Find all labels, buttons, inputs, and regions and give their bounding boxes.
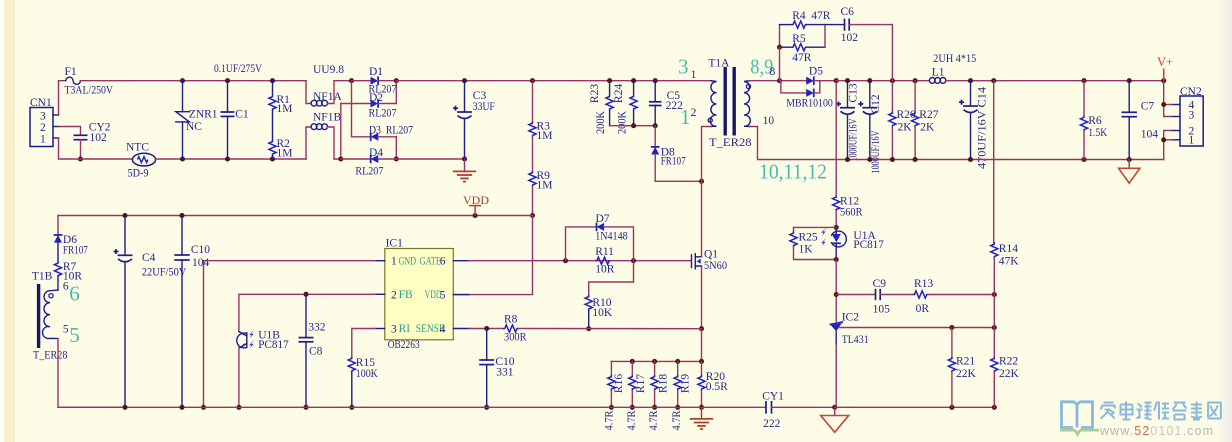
svg-text:R27: R27 <box>919 109 938 121</box>
svg-text:2K: 2K <box>920 122 935 134</box>
svg-text:R4: R4 <box>792 10 806 22</box>
wire IC1 GND to ground column <box>204 261 376 408</box>
resistor R6 <box>1080 81 1107 160</box>
wire Q1 drain <box>701 181 703 256</box>
wire R4R5 column to D5 anode <box>779 47 781 80</box>
svg-text:1: 1 <box>40 134 46 146</box>
svg-text:0.5R: 0.5R <box>706 381 728 393</box>
wire snubber to D8 <box>654 126 656 147</box>
diode D1 <box>352 66 397 96</box>
IC1 pin6 GATE <box>420 255 469 267</box>
wire R3 to R9 <box>532 137 534 171</box>
svg-text:RI: RI <box>399 323 411 335</box>
svg-text:C6: C6 <box>841 6 855 18</box>
wire VDD column to IC pin5 <box>453 216 532 295</box>
svg-text:1M: 1M <box>277 103 293 115</box>
wire TL431 ref line <box>839 327 995 329</box>
resistor R14 <box>991 81 1020 295</box>
wire T1B pin5 to primary ground bus <box>58 339 125 408</box>
svg-text:5: 5 <box>69 323 80 347</box>
optocoupler U1B <box>237 330 289 351</box>
wire T1A pin2 to drain node <box>702 127 712 182</box>
ground triangle under C7 <box>1119 160 1140 184</box>
power port V+ <box>1157 55 1173 81</box>
resistor R21 <box>948 328 976 408</box>
node top rail junctions <box>180 78 185 83</box>
svg-text:22K: 22K <box>956 368 977 380</box>
resistor R18 <box>648 361 669 430</box>
wire SENSE line <box>469 328 503 330</box>
wire IC1 FB line <box>239 294 375 331</box>
resistor R13 <box>913 278 934 315</box>
wire secondary plus rail <box>836 80 929 82</box>
wire R8 to source node <box>519 328 702 330</box>
svg-text:1000UF/16V: 1000UF/16V <box>870 130 882 173</box>
wire C3 to primary ground <box>464 159 466 171</box>
wire VDD bus <box>58 215 533 217</box>
resistor R24 <box>613 81 637 134</box>
svg-text:C13: C13 <box>848 83 860 102</box>
svg-text:470UF/16V C14: 470UF/16V C14 <box>977 87 989 169</box>
svg-text:5N60: 5N60 <box>704 260 727 272</box>
watermark site name glyphs <box>1101 402 1222 420</box>
watermark book icon <box>1060 402 1099 438</box>
svg-text:560R: 560R <box>840 207 863 219</box>
diode D7 loop <box>566 227 597 261</box>
capacitor C13 <box>836 81 860 162</box>
svg-text:3: 3 <box>1189 109 1195 121</box>
wire R10 jog <box>589 261 634 295</box>
svg-text:1M: 1M <box>537 180 553 192</box>
svg-text:NF1A: NF1A <box>313 91 342 103</box>
svg-text:5: 5 <box>63 324 69 336</box>
inductor NF1B <box>306 112 341 160</box>
resistor R2 <box>269 138 293 160</box>
wire DC minus rail <box>396 158 464 160</box>
optocoupler U1A <box>821 227 884 259</box>
wire secondary ground bus <box>772 406 995 408</box>
svg-text:C7: C7 <box>1141 101 1155 113</box>
svg-text:6: 6 <box>69 282 80 306</box>
IC1 pin5 VDD <box>425 289 469 301</box>
capacitor C7 <box>1121 81 1158 160</box>
svg-text:1: 1 <box>680 105 691 129</box>
varistor ZNR1 <box>176 81 218 159</box>
ground triangle under TL431 <box>821 407 849 432</box>
resistor R19 <box>671 361 692 430</box>
wire D6 to R7 <box>57 243 59 262</box>
svg-text:104: 104 <box>192 257 210 269</box>
svg-text:ZNR1: ZNR1 <box>189 109 218 121</box>
connector CN2 <box>1172 86 1203 147</box>
wire primary ground bus <box>58 406 766 408</box>
wire R4 R5 right join <box>824 25 826 48</box>
svg-text:C4: C4 <box>142 252 156 264</box>
IC1 pin3 RI <box>375 323 410 335</box>
resistor R15 <box>348 357 378 408</box>
svg-text:2: 2 <box>40 122 46 134</box>
diode D6 <box>54 234 88 257</box>
resistor R11 <box>595 246 615 276</box>
wire secondary ground rail <box>836 159 1163 161</box>
wire after L1 <box>946 80 1164 82</box>
wire C6 down to rail <box>891 25 893 81</box>
svg-text:1: 1 <box>691 69 697 81</box>
svg-text:22K: 22K <box>999 368 1020 380</box>
wire CN1 pin1 down <box>59 138 133 159</box>
svg-text:D7: D7 <box>596 213 610 225</box>
svg-text:5D-9: 5D-9 <box>128 168 149 180</box>
capacitor C12 <box>858 81 882 174</box>
svg-text:F1: F1 <box>65 66 77 78</box>
svg-text:4.7R: 4.7R <box>648 410 660 430</box>
capacitor C5 <box>649 81 683 126</box>
svg-text:www.520101.com: www.520101.com <box>1099 424 1214 438</box>
diode D3 <box>352 81 414 141</box>
svg-text:C12: C12 <box>870 94 882 113</box>
svg-text:C8: C8 <box>309 346 323 358</box>
svg-text:R18: R18 <box>657 374 669 393</box>
wire CY2 to bottom rail <box>80 140 82 159</box>
svg-text:200K: 200K <box>617 110 629 134</box>
svg-text:MBR10100: MBR10100 <box>786 98 833 110</box>
svg-text:10,11,12: 10,11,12 <box>759 160 827 184</box>
svg-text:8: 8 <box>770 66 776 78</box>
svg-text:R13: R13 <box>914 278 933 290</box>
wire R13 to R14 bottom <box>928 294 994 296</box>
svg-text:1K: 1K <box>799 244 814 256</box>
diode D5 bottom <box>780 81 834 110</box>
capacitor C10 (sense filter) <box>479 329 515 408</box>
inductor L1 <box>929 53 976 83</box>
svg-text:D4: D4 <box>369 147 383 159</box>
resistor R25 <box>790 227 836 259</box>
svg-text:102: 102 <box>841 32 859 44</box>
svg-text:D2: D2 <box>369 92 383 104</box>
capacitor C4 <box>114 216 187 408</box>
svg-text:OB2263: OB2263 <box>388 339 420 351</box>
svg-text:D3 RL207: D3 RL207 <box>369 125 413 137</box>
svg-text:4: 4 <box>440 324 446 336</box>
wire VDD bus down to D6 <box>57 216 59 236</box>
inductor NF1A <box>306 81 342 106</box>
svg-text:331: 331 <box>496 367 514 379</box>
svg-text:IC1: IC1 <box>386 238 404 250</box>
svg-text:R23: R23 <box>589 84 601 103</box>
svg-text:NC: NC <box>186 121 202 133</box>
svg-text:2K: 2K <box>898 122 913 134</box>
svg-text:IC2: IC2 <box>842 312 860 324</box>
svg-text:200K: 200K <box>595 110 607 134</box>
IC1 pin2 FB <box>375 289 413 301</box>
svg-text:R5: R5 <box>792 33 806 45</box>
svg-text:R11: R11 <box>595 246 614 258</box>
svg-text:FB: FB <box>399 289 413 301</box>
svg-text:6: 6 <box>63 281 69 293</box>
resistor R17 <box>626 361 647 430</box>
svg-text:NF1B: NF1B <box>313 112 341 124</box>
shunt regulator IC2 TL431 <box>830 312 869 408</box>
wire GATE line <box>469 260 691 262</box>
svg-text:1000UF/16V: 1000UF/16V <box>848 118 860 161</box>
wire C9 to R13 <box>880 294 913 296</box>
svg-text:300R: 300R <box>504 332 527 344</box>
svg-text:47K: 47K <box>999 256 1020 268</box>
svg-text:R6: R6 <box>1088 115 1102 127</box>
capacitor CY1 <box>762 391 784 431</box>
wire AC neutral bottom rail <box>156 158 306 160</box>
svg-text:R8: R8 <box>504 314 518 326</box>
svg-text:FR107: FR107 <box>63 245 88 257</box>
svg-text:R22: R22 <box>999 356 1018 368</box>
wire sense resistor top bus <box>611 329 701 362</box>
wire CN1 pin2 to CY2 <box>59 127 81 136</box>
svg-text:TL431: TL431 <box>842 334 869 346</box>
svg-text:47R: 47R <box>811 10 831 22</box>
svg-text:R16: R16 <box>613 374 625 393</box>
transformer winding T1B <box>33 284 68 362</box>
svg-text:1: 1 <box>1189 135 1195 147</box>
svg-text:332: 332 <box>308 322 326 334</box>
svg-text:100K: 100K <box>356 368 379 380</box>
svg-text:6: 6 <box>440 256 446 268</box>
svg-text:33UF: 33UF <box>473 101 495 113</box>
svg-text:4.7R: 4.7R <box>671 410 683 430</box>
wire R9 down to VDD bus <box>532 187 534 216</box>
svg-text:105: 105 <box>873 304 891 316</box>
svg-text:R17: R17 <box>635 374 647 393</box>
svg-text:GATE: GATE <box>420 255 442 267</box>
resistor R9 <box>529 170 553 192</box>
svg-text:D5: D5 <box>809 66 823 78</box>
svg-text:C10: C10 <box>191 244 210 256</box>
resistor R23 <box>589 81 613 134</box>
wire opto cathode to TL431 <box>835 260 837 322</box>
IC1 pin1 GND <box>375 255 416 267</box>
svg-text:3: 3 <box>678 55 689 79</box>
svg-text:4.7R: 4.7R <box>604 410 616 430</box>
svg-text:2: 2 <box>691 107 697 119</box>
svg-text:T_ER28: T_ER28 <box>33 350 68 362</box>
wire D1 D2 cathode join <box>395 81 397 104</box>
svg-text:PC817: PC817 <box>258 339 289 351</box>
wire U1B emitter to ground bus <box>238 348 240 408</box>
transistor Q1 5N60 <box>692 249 728 272</box>
resistor R27 <box>912 81 939 160</box>
diode D8 <box>651 147 686 168</box>
svg-text:1N4148: 1N4148 <box>595 231 628 243</box>
resistor R26 <box>889 81 916 160</box>
svg-text:T3AL/250V: T3AL/250V <box>65 85 114 97</box>
svg-text:R24: R24 <box>613 84 625 103</box>
svg-text:CN1: CN1 <box>30 97 52 109</box>
svg-text:GND: GND <box>399 255 417 267</box>
wire R1 to R2 <box>272 111 274 140</box>
capacitor C14 <box>959 81 989 169</box>
diode D7 <box>595 213 633 261</box>
capacitor C1 <box>221 81 249 159</box>
svg-text:PC817: PC817 <box>853 239 884 251</box>
svg-text:RL207: RL207 <box>369 108 397 120</box>
capacitor C6 <box>825 6 892 44</box>
svg-text:1M: 1M <box>277 148 293 160</box>
wire D8 anode to drain node <box>655 155 701 182</box>
watermark url text <box>1099 424 1214 438</box>
transformer T1A <box>708 58 752 150</box>
wire V+ to CN2 pins 4 3 <box>1164 81 1172 117</box>
svg-text:2: 2 <box>391 289 397 301</box>
svg-text:4.7R: 4.7R <box>626 410 638 430</box>
svg-text:C9: C9 <box>873 278 887 290</box>
svg-text:104: 104 <box>1141 129 1159 141</box>
resistor R10 <box>585 295 613 329</box>
wire gnd to CN2 pins 2 1 <box>1164 131 1172 160</box>
wire snubber bottom join <box>610 125 656 127</box>
capacitor C3 <box>453 81 495 159</box>
svg-text:UU9.8: UU9.8 <box>313 64 344 76</box>
svg-text:0.1UF/275V: 0.1UF/275V <box>214 63 263 75</box>
resistor R12 <box>833 81 863 228</box>
svg-text:RL207: RL207 <box>355 166 383 178</box>
svg-text:0R: 0R <box>916 303 930 315</box>
svg-text:5: 5 <box>440 289 446 301</box>
ground primary earth under C3 <box>453 170 476 172</box>
svg-text:222: 222 <box>763 418 781 430</box>
wire R7 to T1B winding <box>57 277 59 290</box>
svg-text:C1: C1 <box>235 109 249 121</box>
wire AC live top rail <box>80 80 306 82</box>
svg-text:R21: R21 <box>956 356 975 368</box>
svg-text:L1: L1 <box>932 67 945 79</box>
svg-text:1M: 1M <box>537 130 553 142</box>
resistor R3 <box>529 81 553 142</box>
wire top rail after NF1A <box>334 80 352 82</box>
svg-text:CN2: CN2 <box>1180 86 1202 98</box>
svg-text:V+: V+ <box>1157 55 1173 69</box>
svg-text:3: 3 <box>40 111 46 123</box>
svg-text:22UF/50V: 22UF/50V <box>142 267 187 279</box>
resistor R16 <box>604 361 626 430</box>
svg-text:D1: D1 <box>369 66 383 78</box>
resistor R7 <box>54 261 82 283</box>
svg-text:10R: 10R <box>595 264 615 276</box>
svg-text:T1A: T1A <box>708 58 730 70</box>
wire R14 bottom to ref node <box>993 295 995 328</box>
ground primary earth under R20 <box>690 407 713 429</box>
resistor R22 <box>991 328 1020 408</box>
resistor R8 <box>503 314 527 344</box>
capacitor C9 <box>836 278 890 316</box>
svg-text:R25: R25 <box>799 232 818 244</box>
svg-text:47R: 47R <box>792 52 812 64</box>
IC U1 OB2263 body <box>385 238 454 352</box>
capacitor CY2 <box>74 122 111 144</box>
capacitor C10 (VDD filter) <box>174 216 210 408</box>
svg-text:R14: R14 <box>999 243 1018 255</box>
wire IC1 RI to R15 <box>352 329 375 357</box>
svg-text:NTC: NTC <box>126 142 149 154</box>
svg-text:3: 3 <box>391 324 397 336</box>
diode D2 <box>341 92 397 120</box>
wire secondary bottom pin10 <box>750 127 837 160</box>
wire CN1 pin3 to fuse <box>59 81 66 115</box>
resistor R20 <box>698 361 728 407</box>
wire D3 anode down to DC minus <box>395 137 397 159</box>
resistor R1 <box>269 81 293 115</box>
svg-text:10: 10 <box>763 115 775 127</box>
diode D5 top <box>806 66 836 86</box>
wire Q1 source to sense node <box>701 266 703 329</box>
wire D2 anode down to neutral <box>340 104 342 160</box>
connector CN1 <box>30 97 59 147</box>
diode D4 <box>341 147 397 178</box>
svg-text:Q1: Q1 <box>704 249 718 261</box>
snubber R5 <box>780 33 826 64</box>
svg-text:1: 1 <box>391 256 397 268</box>
capacitor C8 <box>299 294 326 407</box>
svg-text:T_ER28: T_ER28 <box>709 137 752 149</box>
svg-text:CY1: CY1 <box>762 391 784 403</box>
svg-text:FR107: FR107 <box>661 156 686 168</box>
svg-text:1.5K: 1.5K <box>1088 127 1108 139</box>
thermistor NTC <box>126 142 156 180</box>
IC1 pin4 SENSE <box>416 323 469 335</box>
svg-text:T1B: T1B <box>32 270 53 282</box>
svg-text:10K: 10K <box>592 307 613 319</box>
svg-text:102: 102 <box>90 132 108 144</box>
power port VDD <box>463 193 489 216</box>
snubber R4 <box>780 10 831 47</box>
svg-text:R19: R19 <box>680 374 692 393</box>
fuse F1 <box>65 66 114 97</box>
wire top rail to snubber area <box>396 80 711 82</box>
wire secondary top to D5 <box>750 80 807 82</box>
svg-text:2UH 4*15: 2UH 4*15 <box>933 53 976 65</box>
